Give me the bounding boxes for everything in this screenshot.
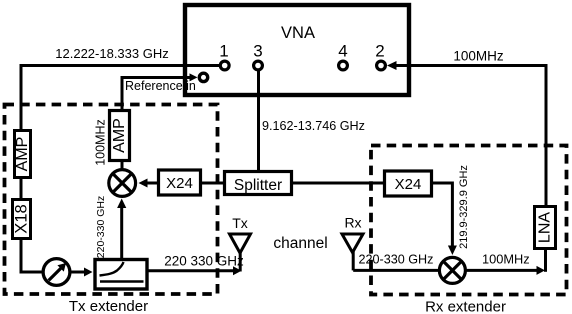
amplifier AMP (center, reference IF) xyxy=(110,111,130,161)
wire attenuator to filter (arrow) xyxy=(70,268,93,277)
wire mixer to center AMP xyxy=(121,161,124,170)
svg-text:1: 1 xyxy=(219,42,228,61)
svg-text:100MHz: 100MHz xyxy=(482,252,530,267)
svg-text:3: 3 xyxy=(253,42,262,61)
wire Rx X24 to Rx mixer (arrow down), label 219.9-329.9 GHz xyxy=(431,165,470,255)
svg-text:9.162-13.746 GHz: 9.162-13.746 GHz xyxy=(262,119,365,133)
amplifier LNA xyxy=(535,207,556,249)
svg-text:AMP: AMP xyxy=(111,118,128,153)
svg-text:220 330 GHz: 220 330 GHz xyxy=(164,254,244,269)
multiplier X18 xyxy=(13,200,31,239)
VNA box xyxy=(185,5,409,95)
wire filter up to Tx mixer (arrow up), label 220-330 GHz xyxy=(95,196,126,258)
svg-text:Splitter: Splitter xyxy=(234,177,282,194)
svg-text:Tx: Tx xyxy=(232,215,248,231)
Tx antenna xyxy=(230,215,251,272)
amplifier AMP (left, Tx input) xyxy=(14,131,31,178)
svg-text:Tx extender: Tx extender xyxy=(69,298,148,314)
wire port3 to splitter, label 9.162-13.746 GHz xyxy=(259,69,365,171)
arrow X24 to mixer xyxy=(139,179,158,188)
svg-text:Rx: Rx xyxy=(344,215,361,231)
wire LNA bottom junction xyxy=(544,249,547,272)
svg-text:220-330 GHz: 220-330 GHz xyxy=(95,196,107,258)
port 4 xyxy=(338,42,347,70)
multiplier X24 (Tx side) xyxy=(159,170,201,195)
wire port1 to left AMP chain, label 12.222-18.333 GHz xyxy=(21,46,219,130)
svg-text:X24: X24 xyxy=(395,176,422,193)
svg-text:12.222-18.333 GHz: 12.222-18.333 GHz xyxy=(55,46,168,61)
mixer (Rx mixer) xyxy=(439,257,465,283)
wire filter to Tx antenna (arrow), label 220 330 GHz xyxy=(147,254,244,276)
svg-text:VNA: VNA xyxy=(281,24,315,42)
svg-text:2: 2 xyxy=(375,42,384,61)
multiplier X24 (Rx side) xyxy=(385,171,432,196)
svg-text:LNA: LNA xyxy=(537,212,554,243)
Tx extender dashed enclosure xyxy=(5,105,218,314)
variable attenuator (circle with diagonal arrow) xyxy=(43,259,70,286)
Rx antenna xyxy=(342,215,363,271)
port 2 xyxy=(375,42,385,70)
svg-text:100MHz: 100MHz xyxy=(453,49,504,64)
svg-text:219.9-329.9 GHz: 219.9-329.9 GHz xyxy=(458,165,470,249)
svg-text:AMP: AMP xyxy=(14,137,31,172)
wire center AMP to Reference in (with arrow) xyxy=(122,73,198,110)
Rx extender dashed enclosure xyxy=(371,146,567,314)
svg-text:4: 4 xyxy=(338,42,347,61)
wire Rx mixer to LNA path (arrow right), label 100MHz xyxy=(466,252,546,275)
svg-text:channel: channel xyxy=(273,235,327,252)
svg-text:X18: X18 xyxy=(13,204,31,233)
wire AMP to X18 xyxy=(20,178,23,199)
filter/transition box xyxy=(95,260,147,290)
svg-text:220-330 GHz: 220-330 GHz xyxy=(359,253,434,267)
wire 100MHz from port2 to LNA xyxy=(387,49,546,207)
wire Rx antenna to Rx mixer, label 220-330 GHz xyxy=(353,253,440,271)
wire X24 to splitter xyxy=(201,182,224,185)
splitter xyxy=(225,172,292,195)
port 3 xyxy=(253,42,262,70)
Reference in port xyxy=(125,73,208,93)
svg-text:Rx extender: Rx extender xyxy=(425,299,506,314)
port 1 xyxy=(219,42,229,70)
wire splitter to Rx X24 xyxy=(292,182,384,185)
svg-text:100MHz: 100MHz xyxy=(94,119,108,166)
svg-text:X24: X24 xyxy=(166,175,193,192)
wire X18 to attenuator xyxy=(21,239,43,272)
mixer (Tx reference mixer) xyxy=(109,170,136,197)
svg-text:Reference in: Reference in xyxy=(125,79,196,93)
